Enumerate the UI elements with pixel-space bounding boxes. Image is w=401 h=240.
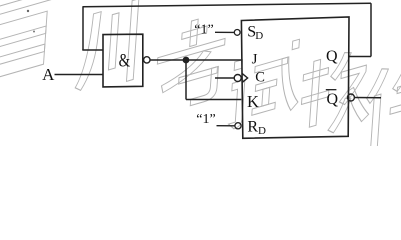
watermark char 百 (0, 0, 59, 82)
flip-flop U1 box (241, 17, 349, 138)
svg-text:Q: Q (326, 48, 338, 65)
wire feedback left vertical (82, 6, 84, 50)
Qbar overline (326, 89, 337, 91)
scan speck 2 (33, 31, 35, 33)
svg-text:J: J (252, 52, 258, 68)
scan speck 1 (27, 10, 29, 12)
gate G1 output bubble (144, 57, 150, 63)
svg-text:D: D (258, 125, 266, 137)
wire junction down (185, 60, 187, 100)
watermark char 川 (75, 0, 139, 96)
svg-text:&: & (119, 51, 131, 71)
svg-text:“1”: “1” (196, 112, 215, 127)
wire 1 to RD bubble (217, 125, 235, 127)
wire feedback top rail (83, 3, 371, 7)
svg-text:A: A (42, 65, 55, 84)
Qbar output bubble (347, 94, 354, 101)
svg-text:R: R (247, 118, 258, 135)
watermark char 考 (154, 11, 227, 116)
svg-text:D: D (255, 30, 263, 42)
wire to K input (186, 99, 241, 101)
wire A to gate input 2 (55, 74, 104, 76)
svg-text:C: C (255, 69, 265, 85)
svg-text:Q: Q (327, 91, 339, 108)
clock edge wedge (242, 73, 248, 83)
wire feedback right vertical (370, 3, 372, 56)
watermark char 件 (363, 52, 401, 151)
wire Q output to feedback (349, 56, 371, 58)
SD input bubble (234, 30, 240, 36)
svg-text:K: K (247, 92, 259, 111)
RD input bubble (235, 123, 241, 129)
wire gate output to J input (150, 59, 241, 61)
watermark char 软 (299, 44, 374, 142)
wire CP stub (215, 77, 234, 79)
watermark char 试 (228, 38, 302, 130)
svg-text:“1”: “1” (194, 23, 213, 38)
wire 1 to SD bubble (215, 31, 234, 33)
wire Qbar output (355, 97, 382, 99)
gate G1 AND box (103, 34, 143, 87)
wire feedback into gate input 1 (82, 49, 103, 51)
junction node (183, 57, 190, 64)
C input bubble (234, 75, 241, 82)
